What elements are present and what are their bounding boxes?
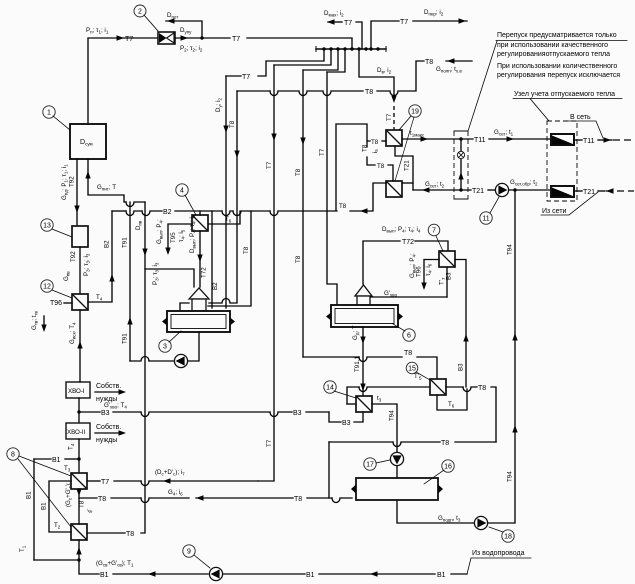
- wire: bypass internal: [460, 139, 462, 190]
- callout circle 2: [134, 5, 158, 31]
- svg-text:B2: B2: [163, 209, 172, 216]
- svg-text:T8: T8: [295, 168, 302, 176]
- wire: branch to deaerator 3 dome: [145, 269, 194, 287]
- wire: V3 long T7 line down to HX-A: [258, 65, 274, 481]
- svg-text:T21: T21: [472, 188, 484, 195]
- svg-text:T7: T7: [101, 479, 109, 486]
- staircase extraction A: [258, 49, 324, 76]
- wire: T7 valve to header: [175, 37, 230, 39]
- svg-text:Узел учета отпускаемого тепла: Узел учета отпускаемого тепла: [514, 91, 615, 98]
- svg-text:T72: T72: [402, 239, 414, 246]
- callout circle 8: [7, 448, 71, 527]
- heat exchanger 14: [356, 396, 372, 412]
- svg-text:T7: T7: [386, 113, 393, 121]
- wire: D_max bypass to left: [356, 22, 362, 49]
- wire: T8 line from HX-B: [87, 532, 125, 534]
- svg-text:T91: T91: [122, 333, 129, 344]
- wire: T8 collector under header: [237, 90, 270, 92]
- cooler 7: [439, 251, 455, 267]
- svg-text:T92: T92: [69, 176, 76, 187]
- callout circle 19: [395, 105, 421, 181]
- wire: HX19-1 left T8 stub: [382, 140, 386, 142]
- svg-text:1: 1: [47, 110, 51, 117]
- evaporator D_sum box: [70, 124, 106, 159]
- svg-text:Gд; T: Gд; T: [352, 325, 360, 340]
- wire: T8 line y357 into HX15: [303, 356, 359, 358]
- svg-text:13: 13: [43, 223, 51, 230]
- arrow D_upu on T7: [181, 35, 189, 40]
- wire: D_v extraction to HX19-1: [359, 49, 394, 99]
- wire: T21 line: [413, 189, 471, 191]
- svg-text:ХВО-I: ХВО-I: [68, 388, 85, 395]
- svg-text:T7: T7: [319, 148, 326, 156]
- svg-text:T8: T8: [79, 500, 86, 508]
- wire: D_pot return branch: [166, 21, 202, 38]
- wire: main steam T7 from boiler riser: [88, 38, 158, 124]
- node: junction on T7 at bypass: [200, 36, 203, 39]
- wire: B1 branch: [34, 458, 51, 460]
- svg-text:Собств.: Собств.: [96, 423, 121, 431]
- wire: B3 riser at cooler 7: [455, 260, 466, 388]
- callout circle 6: [393, 324, 415, 341]
- svg-text:T94: T94: [389, 410, 396, 421]
- heat exchanger 19 upper: [386, 130, 402, 146]
- svg-text:T91: T91: [122, 237, 129, 248]
- svg-text:2: 2: [138, 9, 142, 16]
- svg-text:14: 14: [326, 385, 334, 392]
- bypass unit dashed box: [454, 131, 468, 199]
- wire: V1 extraction down to deaerator 3: [225, 76, 227, 308]
- svg-text:B3: B3: [342, 420, 351, 427]
- deaerator 6 tank: [331, 305, 398, 327]
- deaerator 6 dome: [355, 285, 372, 296]
- svg-text:P3; τ3; i3: P3; τ3; i3: [83, 253, 91, 276]
- svg-text:T8: T8: [294, 496, 302, 503]
- svg-text:регулированияотпускаемого тепл: регулированияотпускаемого тепла: [497, 51, 610, 58]
- wire: D_pv feed line: [141, 202, 145, 533]
- svg-text:Собств.: Собств.: [96, 382, 121, 390]
- wire: B3 long line: [79, 411, 100, 413]
- svg-text:P3; τ3; i3: P3; τ3; i3: [152, 262, 160, 285]
- wire: T11 to network: [574, 139, 582, 141]
- svg-text:B3: B3: [446, 272, 453, 280]
- wire: HX-B bottom to B1 junction: [78, 540, 80, 560]
- storage tank 16: [356, 478, 438, 500]
- svg-text:T96: T96: [416, 266, 423, 277]
- heat exchanger B (8): [71, 524, 87, 540]
- wire: T8 drain jog into HX19-2 top: [367, 141, 375, 165]
- svg-text:T8: T8: [243, 246, 250, 254]
- heat exchanger 4: [192, 215, 208, 231]
- svg-text:3: 3: [163, 344, 167, 351]
- bus junction dots: [322, 47, 379, 50]
- callout circle 15: [406, 362, 430, 380]
- wire: T1 bottom link: [34, 559, 79, 561]
- svg-text:(Dс+D'с); i7: (Dс+D'с); i7: [155, 469, 185, 477]
- metering unit dashed box: [547, 121, 577, 201]
- svg-text:T7: T7: [266, 161, 273, 169]
- svg-text:B3: B3: [293, 410, 302, 417]
- svg-text:T8: T8: [377, 163, 385, 170]
- wire: cooler 13 to HX12: [79, 247, 81, 294]
- wire: B1 loop left of HX pair: [49, 481, 71, 532]
- svg-text:В сеть: В сеть: [570, 114, 591, 121]
- wire: B2 drop to deaerator 3: [211, 211, 213, 308]
- wire: G_d drain from deaerator 6: [362, 328, 364, 396]
- cooler 13 box: [72, 226, 88, 247]
- wire: B1 left drop: [33, 459, 35, 560]
- deaerator 3 dome: [189, 288, 209, 299]
- svg-text:B1: B1: [306, 572, 315, 579]
- wire: D_per bypass to right: [371, 21, 399, 49]
- pump under deaerator 3: [174, 354, 187, 367]
- svg-text:Gисх; T4: Gисх; T4: [69, 322, 77, 344]
- svg-text:16: 16: [444, 464, 452, 471]
- svg-text:при использовании качественног: при использовании качественного: [497, 42, 608, 49]
- svg-text:11: 11: [482, 216, 489, 223]
- deaerator 3 tank: [167, 311, 230, 332]
- svg-text:T92: T92: [70, 251, 77, 262]
- callout circle 13: [41, 219, 72, 237]
- heat exchanger 19 lower: [386, 181, 402, 197]
- svg-text:T8: T8: [441, 440, 449, 447]
- svg-text:T21: T21: [583, 189, 595, 196]
- pump 17: [390, 452, 403, 465]
- svg-text:T8: T8: [362, 144, 369, 152]
- svg-text:T7: T7: [242, 74, 250, 81]
- svg-text:B3: B3: [101, 410, 110, 417]
- svg-text:Pп; τ1; i1: Pп; τ1; i1: [86, 27, 109, 35]
- svg-text:(Gс+G'с);: (Gс+G'с);: [65, 482, 73, 507]
- wire: T72 vapour line deaerator 6 to cooler 7: [363, 241, 400, 284]
- pump 9: [209, 567, 222, 580]
- svg-text:T11: T11: [583, 138, 595, 145]
- svg-text:T8: T8: [98, 496, 106, 503]
- wire: deaerator 3 outlet with pump: [188, 332, 199, 361]
- arrow on T7 feed: [117, 35, 125, 40]
- wire: B3 bottom into HX14: [354, 412, 363, 422]
- svg-text:T8: T8: [365, 89, 373, 96]
- steam header bus: [316, 48, 386, 50]
- wire: cooler 7 vent stub: [424, 260, 439, 288]
- wire: G_pit feed water from box: [88, 159, 126, 202]
- svg-text:B1: B1: [100, 572, 109, 579]
- svg-text:T7: T7: [400, 19, 408, 26]
- svg-text:(Gсв+G'св); T1: (Gсв+G'св); T1: [96, 560, 134, 568]
- wire: XVO-II down to HX-A: [78, 439, 80, 473]
- svg-text:B1: B1: [437, 572, 446, 579]
- water treatment XVO-I: [66, 382, 90, 398]
- svg-text:B1: B1: [52, 457, 61, 464]
- leader from note to bypass unit: [468, 41, 497, 131]
- heat exchanger 12: [72, 294, 88, 310]
- svg-text:T8: T8: [339, 203, 347, 210]
- wire: G'hvo line from dome 6: [371, 296, 447, 298]
- svg-text:12: 12: [43, 284, 51, 291]
- note text block top right: [497, 32, 620, 79]
- svg-text:T91.1: T91.1: [354, 356, 361, 372]
- svg-text:T8: T8: [404, 350, 412, 357]
- svg-text:T8: T8: [229, 120, 236, 128]
- svg-text:19: 19: [411, 109, 419, 116]
- wire: T21 from network: [574, 190, 582, 192]
- svg-text:B2: B2: [212, 282, 219, 290]
- callout circle 4: [176, 184, 196, 215]
- water treatment XVO-II: [66, 423, 90, 439]
- svg-text:T8: T8: [295, 255, 302, 263]
- wire: HX14 right to T94 down: [372, 404, 397, 452]
- svg-text:T8: T8: [478, 385, 486, 392]
- svg-text:T8: T8: [126, 531, 134, 538]
- pump 11: [495, 183, 508, 196]
- callout circle 16: [424, 460, 454, 484]
- staircase extraction D: [327, 49, 345, 72]
- wire: T6 stub from HX4: [209, 211, 240, 224]
- wire: T4 / B2 riser from HX12: [88, 211, 112, 302]
- wire: T8 return line y498: [79, 497, 97, 499]
- wire: chain HX-A to HX-B: [78, 489, 80, 524]
- svg-text:17: 17: [366, 462, 374, 469]
- svg-text:Из водопровода: Из водопровода: [472, 550, 525, 557]
- wire: T8 make-up inlet stub: [446, 60, 472, 62]
- svg-text:T94: T94: [507, 244, 514, 255]
- wire: T8 line y442: [329, 441, 393, 443]
- svg-text:T95: T95: [170, 232, 177, 243]
- svg-text:B1: B1: [26, 491, 33, 499]
- callout circle 1: [43, 106, 70, 130]
- svg-text:ХВО-II: ХВО-II: [67, 429, 86, 436]
- wire: T92 condensate to cooler 13: [76, 159, 78, 226]
- svg-text:4: 4: [180, 188, 184, 195]
- svg-text:Перепуск предусматривается тол: Перепуск предусматривается только: [497, 32, 617, 39]
- flow meter upper: [551, 134, 574, 145]
- pump 18: [474, 516, 487, 529]
- svg-text:T96: T96: [50, 300, 62, 307]
- wire: G_ish from HX12 to XVO-I: [79, 310, 81, 382]
- wire: T94 return main: [488, 190, 515, 523]
- svg-text:T8: T8: [371, 139, 379, 146]
- svg-text:T94: T94: [507, 471, 514, 482]
- svg-text:B2: B2: [104, 240, 111, 248]
- callout circle 14: [324, 381, 356, 398]
- svg-text:7: 7: [432, 228, 436, 235]
- wire: B1 raw water main: [79, 560, 99, 574]
- wire: sensor line y387 to HX15: [347, 387, 359, 404]
- svg-text:T11: T11: [474, 137, 486, 144]
- wire: T91 line: [129, 202, 131, 361]
- heat exchanger 15: [430, 379, 446, 395]
- svg-text:15: 15: [408, 366, 416, 373]
- wire: HX15 sensor loop: [437, 389, 467, 410]
- callout circle 7: [428, 224, 443, 251]
- callout circle 12: [41, 280, 72, 298]
- svg-text:регулирования перепуск исключа: регулирования перепуск исключается: [497, 72, 620, 79]
- valve 2 (reducing valve): [158, 32, 175, 44]
- svg-text:T7: T7: [344, 20, 352, 27]
- staircase extraction B: [274, 49, 331, 65]
- wire: HX4 bottom to deaerator 3 dome: [199, 231, 201, 287]
- wire: B2 main line: [112, 210, 126, 212]
- svg-text:6: 6: [407, 333, 411, 340]
- wire: between XVO boxes: [78, 398, 80, 423]
- svg-text:T7: T7: [232, 36, 240, 43]
- svg-text:B1: B1: [41, 502, 48, 510]
- wire: HX4 vent stub T95: [168, 224, 192, 252]
- svg-text:8: 8: [11, 452, 15, 459]
- wire: HX4 top to B2: [199, 211, 201, 215]
- heat exchanger A (8): [71, 473, 87, 489]
- svg-text:B3: B3: [458, 363, 465, 371]
- staircase extraction C: [303, 49, 338, 70]
- wire: V2 T8 drain down to deaerator 3 dome: [231, 91, 237, 303]
- svg-text:нужды: нужды: [96, 437, 117, 444]
- callout circle 3: [159, 331, 181, 352]
- svg-text:T72: T72: [201, 267, 208, 278]
- wire: B2 right section drop to dome 3: [208, 211, 251, 306]
- wire: V5 down to deaerator 6: [327, 72, 337, 304]
- svg-text:T7: T7: [125, 36, 133, 43]
- wire: V4 T8 line down to y357: [302, 70, 304, 357]
- svg-text:T8: T8: [425, 59, 433, 66]
- flow meter lower: [551, 186, 574, 197]
- svg-text:Из сети: Из сети: [542, 208, 567, 215]
- svg-text:P2; τ2; i2: P2; τ2; i2: [180, 45, 203, 53]
- wire: riser between HX19 pair: [395, 146, 413, 190]
- wire: HX15 right T8: [446, 386, 463, 388]
- wire: T7 steam line to HX-A: [87, 480, 100, 482]
- wire: G_podp line tank16 to pump18: [397, 499, 474, 523]
- wire: T11 line: [402, 138, 473, 140]
- svg-text:T7: T7: [266, 439, 273, 447]
- svg-text:При использовании количественн: При использовании количественного: [497, 63, 617, 70]
- svg-text:9: 9: [187, 549, 191, 556]
- svg-text:18: 18: [504, 534, 512, 541]
- svg-text:T21: T21: [404, 160, 411, 171]
